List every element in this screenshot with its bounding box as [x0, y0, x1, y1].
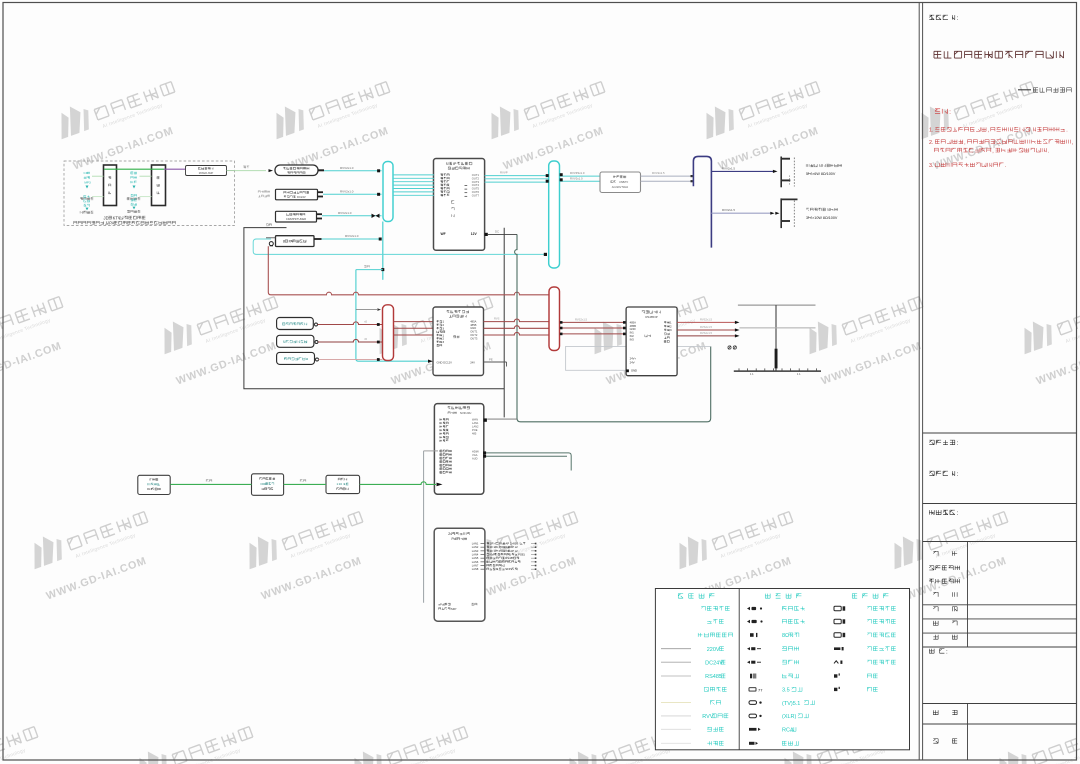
svg-text::: :: [949, 109, 951, 116]
green fiber chain box C2: [326, 475, 360, 493]
svg-text:,: ,: [1072, 140, 1073, 146]
dashed enclosure: front-end equipment: [64, 161, 235, 226]
wire: stack4 to rack2: [140, 196, 152, 198]
cabinet rack 1: [104, 165, 117, 206]
svg-text:RVVP: RVVP: [500, 171, 508, 175]
wire: navy to speaker1: [711, 170, 773, 172]
svg-text:OUT2: OUT2: [470, 333, 478, 337]
wire: boxA 12V out: [485, 233, 488, 236]
svg-text:RVS2x1.5: RVS2x1.5: [700, 317, 713, 321]
speaker1 label: [806, 164, 841, 167]
svg-text:n5: n5: [364, 337, 367, 341]
svg-text:1.: 1.: [929, 128, 933, 134]
svg-text:OUT1: OUT1: [472, 173, 480, 177]
svg-text:OLT: OLT: [147, 487, 153, 491]
svg-text:8: 8: [283, 239, 285, 243]
svg-text:OUT7: OUT7: [472, 193, 480, 197]
svg-text:RVV2x1.0: RVV2x1.0: [338, 211, 352, 215]
svg-text:220V: 220V: [707, 647, 720, 653]
svg-text:VGA: VGA: [472, 453, 478, 457]
svg-text:SFP+: SFP+: [505, 567, 513, 571]
wire: mixer out to decoder: [227, 170, 235, 172]
wires: boxB to red bus 3: [484, 319, 550, 322]
red busbar B2: [383, 305, 394, 361]
mini box: mixer controller: [186, 166, 227, 176]
netbox left stub: [424, 450, 438, 452]
svg-text:RS485: RS485: [505, 556, 514, 560]
svg-text:(TV)5.1: (TV)5.1: [782, 701, 800, 707]
svg-text:DC: DC: [495, 229, 499, 233]
svg-text:1 1: 1 1: [797, 372, 801, 376]
wire: boxB PE stub: [484, 361, 507, 363]
sbox2: fire alarm interface: [276, 189, 318, 200]
svg-text:POE: POE: [472, 428, 478, 432]
wire: stack2 to rack1: [92, 196, 104, 198]
speaker2 label: [806, 208, 837, 211]
svg-text:RVV2x1.5: RVV2x1.5: [722, 208, 735, 212]
paging microphone: [269, 242, 273, 246]
svg-text:IP: IP: [453, 162, 457, 166]
svg-text:(XLR): (XLR): [782, 714, 797, 720]
svg-text:LAN1: LAN1: [472, 421, 479, 425]
svg-text:5: 5: [806, 172, 808, 176]
wire: stack1 to rack1: [92, 175, 104, 177]
svg-text:MIXER AMP: MIXER AMP: [199, 171, 214, 175]
svg-text:POE: POE: [499, 549, 505, 553]
wires: red bus to controller: [394, 321, 434, 323]
svg-text:PA: PA: [109, 220, 114, 225]
sbox4: PA paging preamp: [276, 236, 315, 247]
speaker array 1: [780, 157, 782, 188]
cyan drop to controller: [356, 270, 429, 362]
green fiber chain box A: [138, 475, 170, 494]
svg-text:CD/MP3/TUNER: CD/MP3/TUNER: [286, 217, 306, 221]
svg-text:.: .: [1066, 128, 1067, 134]
svg-text:.: .: [1005, 163, 1006, 169]
netbox D: network cabinet: [434, 404, 483, 495]
svg-text:OUT1: OUT1: [470, 330, 478, 334]
red busbar B3: [549, 287, 560, 351]
svg-text:12: 12: [261, 487, 265, 491]
source device stack 3: [131, 172, 137, 174]
svg-text:LAN6: LAN6: [472, 560, 479, 564]
wire: det3 to red bus: [319, 359, 383, 361]
svg-text:1:16: 1:16: [336, 482, 342, 486]
svg-text:485B: 485B: [630, 324, 636, 328]
svg-text:POE): POE): [518, 553, 525, 557]
svg-text:RVS2x1.5: RVS2x1.5: [575, 317, 588, 321]
svg-text:IN3: IN3: [630, 337, 635, 341]
svg-text:OUT5: OUT5: [472, 187, 480, 191]
wire: det2 to red bus: [318, 339, 383, 342]
svg-text:24: 24: [448, 532, 452, 536]
project subtitle: [1018, 89, 1031, 91]
svg-text:IT: IT: [149, 478, 152, 482]
T structure mid rail: [739, 327, 815, 329]
svg-text:12V: 12V: [471, 232, 478, 236]
box C: signal converter: [626, 307, 677, 376]
svg-text:GND: GND: [470, 326, 476, 330]
svg-text:,: ,: [964, 140, 965, 146]
svg-text:WAN: WAN: [472, 418, 478, 422]
wire: green trunk across cabinets: [104, 168, 164, 170]
svg-text::: :: [956, 440, 958, 447]
svg-text:485B: 485B: [470, 323, 476, 327]
company name: [934, 51, 1064, 58]
navy distribution column: [693, 156, 711, 247]
svg-text:77: 77: [758, 687, 763, 692]
svg-text:AC220V 50Hz: AC220V 50Hz: [612, 185, 629, 189]
svg-text::: :: [956, 510, 958, 517]
svg-text:JD: JD: [104, 215, 109, 220]
svg-text:3: 3: [806, 216, 808, 220]
svg-text:RVV2x1.0: RVV2x1.0: [570, 176, 583, 180]
svg-text:LAN5: LAN5: [472, 556, 479, 560]
svg-text:RVS2x1.5: RVS2x1.5: [700, 325, 713, 329]
speaker array 2: [780, 198, 782, 228]
legend left column: [701, 606, 729, 610]
svg-text:485: 485: [472, 432, 477, 436]
svg-text:3.5: 3.5: [782, 688, 790, 694]
wire: stack3 to rack2: [140, 175, 152, 177]
svg-text:AUD: AUD: [472, 457, 478, 461]
svg-text:LAN1: LAN1: [472, 542, 479, 546]
label: date: [933, 739, 938, 743]
svg-text:RS485: RS485: [705, 674, 722, 680]
svg-text:RS485/IP: RS485/IP: [645, 315, 657, 319]
svg-text:a: a: [306, 357, 308, 361]
svg-text::: :: [946, 649, 948, 656]
7 cyan wires B1 to boxA: [393, 174, 434, 176]
wires: bus to amp: [560, 175, 601, 177]
wires: amp to navy column: [641, 175, 694, 177]
wire: riser branch: [356, 269, 383, 271]
wire: sbox3 to busbar: [322, 215, 382, 217]
svg-text:8Ω: 8Ω: [782, 633, 789, 639]
green fiber chain box B: [252, 474, 284, 496]
detector box 3: [277, 352, 315, 364]
maroon riser and run: [268, 246, 549, 295]
legend right column: [834, 606, 841, 610]
wire: navy to speaker2: [711, 212, 771, 214]
PE ground enclosure rect: [244, 228, 504, 418]
svg-text:OUT3: OUT3: [470, 336, 478, 340]
bigbox A: digital IP broadcast host: [434, 159, 485, 251]
svg-text:24V-: 24V-: [630, 360, 636, 364]
wires: converter outputs: [677, 321, 735, 323]
source device stack 4: [131, 194, 137, 196]
svg-text:RVV2x1.0: RVV2x1.0: [345, 234, 359, 238]
svg-text:IN2: IN2: [630, 334, 635, 338]
svg-text:3.: 3.: [929, 163, 933, 169]
svg-text:LAN3: LAN3: [472, 549, 479, 553]
svg-text:RVV2x1.0: RVV2x1.0: [340, 166, 354, 170]
source device stack 2: [84, 195, 90, 197]
detector box 2: [277, 335, 314, 347]
svg-text:CD: CD: [84, 171, 89, 175]
svg-text:OUT6: OUT6: [472, 190, 480, 194]
faint gray loop: [566, 346, 711, 370]
wire: sbox2 to busbar: [323, 193, 382, 195]
amp box: constant voltage amplifier: [600, 172, 641, 193]
wire: sbox1 to busbar: [324, 170, 382, 172]
stub: DC to red bus: [356, 309, 377, 311]
svg-text:RVV: RVV: [702, 714, 714, 720]
switch box: 24 port PoE: [434, 528, 485, 621]
svg-text:WF: WF: [441, 232, 446, 236]
svg-text:24V+: 24V+: [630, 357, 637, 361]
wire: sbox4 to riser: [314, 238, 322, 240]
sbox3: BGM source: [276, 211, 317, 222]
svg-text:RCA: RCA: [782, 728, 794, 734]
bigbox B: network audio alarm controller: [433, 307, 484, 376]
wire: purple link to mixer: [164, 168, 186, 170]
wire: det1 to red bus: [318, 322, 383, 325]
cyan riser below B1: [382, 222, 384, 280]
T structure pole: [775, 305, 777, 371]
svg-text:RVV2x1.5: RVV2x1.5: [652, 171, 665, 175]
svg-text:GND DC12V: GND DC12V: [437, 360, 453, 364]
svg-text:RVS: RVS: [494, 317, 500, 321]
svg-text:485A: 485A: [470, 319, 476, 323]
svg-text:GND: GND: [631, 369, 637, 373]
svg-text:,: ,: [992, 148, 993, 154]
svg-text:24V: 24V: [470, 360, 475, 364]
cyan busbar B1: [383, 162, 393, 222]
T structure top rail: [738, 304, 816, 306]
T structure bottom rail: [734, 370, 821, 372]
svg-text:OUT2: OUT2: [472, 176, 480, 180]
svg-text:n5: n5: [364, 320, 367, 324]
legend middle column: [747, 607, 750, 610]
svg-text:MP3: MP3: [84, 180, 91, 184]
svg-text:RVS2x1.5: RVS2x1.5: [700, 331, 713, 335]
svg-text:USB/TF: USB/TF: [619, 180, 629, 184]
svg-text:RVV2x1.5: RVV2x1.5: [722, 166, 735, 170]
svg-text:DC24V: DC24V: [705, 660, 723, 666]
svg-text::: :: [956, 471, 958, 478]
svg-text:1 1: 1 1: [750, 372, 754, 376]
label: drawing no: [933, 710, 938, 714]
svg-text:485A: 485A: [630, 320, 636, 324]
svg-text:RVVP2x1.0: RVVP2x1.0: [570, 171, 585, 175]
svg-text:LAN4: LAN4: [472, 553, 479, 557]
svg-text:IN1: IN1: [630, 331, 635, 335]
svg-text:LAN2: LAN2: [472, 425, 479, 429]
legend table frame: [655, 589, 909, 750]
netbox mid-right pins: [483, 451, 486, 454]
svg-text:LAN7: LAN7: [472, 564, 479, 568]
svg-text:DC24V: DC24V: [297, 195, 306, 199]
wires: bus3 to converter: [560, 321, 627, 323]
cyan feeder C-loop: [253, 239, 546, 254]
svg-text:ODF: ODF: [260, 482, 266, 486]
cyan busbar B4 tall: [549, 161, 560, 268]
green fiber wires: [170, 483, 251, 485]
cabinet rack 2: [152, 165, 166, 206]
svg-text:OUT4: OUT4: [472, 183, 480, 187]
phi symbols: [728, 346, 731, 349]
svg-text:NVR 23U: NVR 23U: [460, 411, 471, 415]
svg-text:.: .: [1048, 148, 1049, 154]
svg-text:×6W 8Ω/100V: ×6W 8Ω/100V: [812, 172, 836, 176]
gray drop line: [423, 451, 425, 603]
3 cyan wires boxA to bus2: [485, 175, 549, 177]
svg-text:LAN2: LAN2: [472, 545, 479, 549]
svg-text:,: ,: [987, 128, 988, 134]
svg-text:×10W 8Ω/100V: ×10W 8Ω/100V: [812, 216, 838, 220]
svg-text:2.: 2.: [929, 140, 933, 146]
teal drop from boxA down and around: [515, 234, 711, 421]
svg-text:HDMI: HDMI: [472, 450, 479, 454]
svg-text:LAN8: LAN8: [472, 567, 479, 571]
sbox1: network audio source host: [275, 165, 318, 176]
svg-text:≡PoE: ≡PoE: [438, 602, 445, 606]
svg-text:OUT3: OUT3: [472, 180, 480, 184]
svg-text:NVR: NVR: [490, 553, 496, 557]
svg-text::: :: [956, 15, 958, 22]
svg-text:RVV2x1.0: RVV2x1.0: [340, 189, 354, 193]
svg-text:GND: GND: [630, 327, 636, 331]
detector box 1: [277, 318, 314, 330]
svg-text:PE: PE: [489, 357, 493, 361]
svg-text:SFP: SFP: [451, 607, 457, 611]
title block frame: [918, 3, 920, 761]
netbox top-right pins: [484, 418, 487, 421]
signature rows: [933, 551, 938, 555]
